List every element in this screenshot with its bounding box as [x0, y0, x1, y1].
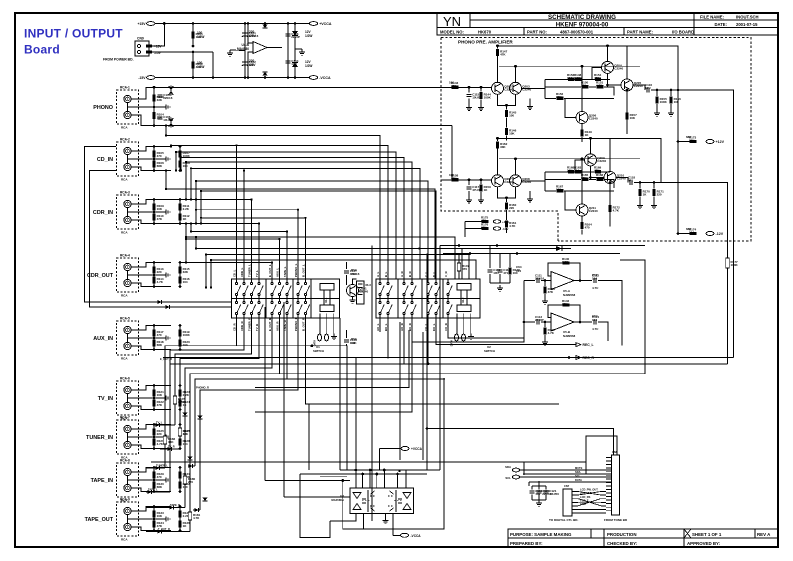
wire phono L into box	[171, 86, 441, 88]
wire u6 left loop2	[300, 474, 330, 538]
wire vcca wire2	[393, 534, 401, 536]
wire Q31 col	[353, 279, 357, 284]
wire fb low2	[564, 190, 614, 192]
wire cn8 low pin 6	[601, 509, 606, 511]
svg-text:HK670: HK670	[478, 29, 492, 34]
wire r5 up	[497, 46, 499, 49]
connector RCA-2 CD_IN jacks	[117, 142, 139, 176]
wire bus4a	[528, 482, 530, 486]
resistor R404	[163, 436, 167, 444]
wire S14 top stub	[427, 279, 429, 282]
svg-text:PHONO PRE. AMPLIFIER: PHONO PRE. AMPLIFIER	[458, 40, 513, 45]
svg-text:APPROVED BY:: APPROVED BY:	[687, 541, 721, 546]
svg-text:220: 220	[509, 206, 514, 210]
resistor TAPE_OUT clamp L	[178, 510, 181, 517]
ground CDR_OUT mid	[166, 272, 170, 277]
svg-text:4.7K: 4.7K	[596, 84, 603, 88]
svg-text:10K: 10K	[157, 393, 163, 397]
transistor Q25	[576, 204, 588, 216]
resistor R403	[188, 512, 192, 520]
wire U5A out	[574, 280, 592, 282]
switch S4a	[258, 282, 260, 284]
svg-text:AO_L: AO_L	[376, 323, 380, 331]
wire u6 h feed1	[340, 469, 440, 471]
wire tail dn2	[506, 135, 508, 140]
wire S9 mid stub	[305, 296, 307, 301]
svg-text:RCA-4: RCA-4	[120, 254, 130, 258]
wire c71 d	[538, 495, 540, 501]
terminal -15V	[147, 76, 155, 80]
resistor R56	[563, 261, 570, 264]
resistor R214	[608, 205, 611, 212]
connector CN8 FROM TONE BD	[612, 455, 620, 515]
wire C104 lead	[287, 40, 289, 78]
resistor TV_IN in L	[152, 389, 155, 396]
wire mxA c4 left	[180, 330, 259, 449]
diode series D306	[188, 464, 192, 468]
wire C32 lead up	[346, 330, 348, 338]
svg-text:33K: 33K	[157, 98, 163, 102]
wire S6 bot stub	[279, 315, 281, 330]
switch S6b	[278, 301, 280, 303]
svg-text:-12V: -12V	[716, 232, 724, 236]
svg-text:TV_R: TV_R	[255, 324, 259, 331]
wire cn8 pin 2	[606, 460, 612, 462]
wire bus drop 10	[200, 218, 202, 224]
wire CD_IN divider string	[153, 147, 155, 171]
sheet checkbox	[684, 529, 691, 538]
wire chan line 1	[171, 199, 252, 201]
diode series D301	[167, 447, 171, 451]
ground TAPE_IN mid	[166, 477, 170, 482]
svg-text:+12V: +12V	[502, 220, 509, 224]
wire bus4	[529, 481, 612, 483]
capacitor C72	[543, 491, 548, 493]
resistor R213	[595, 170, 601, 173]
wire q3 c	[590, 138, 592, 153]
resistor R402	[183, 476, 187, 484]
wire mxA c2 left	[170, 330, 244, 492]
svg-text:33K: 33K	[168, 440, 174, 444]
capacitor C53	[537, 319, 539, 324]
wire matrix feed 3	[251, 200, 253, 280]
wire rail above B2	[443, 253, 620, 255]
wire fb low	[545, 97, 556, 99]
wire scl wire	[520, 476, 612, 478]
wire bus drop 11	[190, 224, 192, 232]
wire fb mid2	[589, 178, 596, 180]
svg-text:47K: 47K	[157, 403, 163, 407]
wire r11	[653, 183, 655, 189]
wire v to U6 a	[264, 307, 266, 481]
wire AUX_IN divider string	[153, 326, 155, 350]
svg-text:RCA-5: RCA-5	[120, 317, 130, 321]
svg-text:REC_L: REC_L	[583, 343, 594, 347]
wire q3 e	[590, 166, 592, 178]
ground mid rails	[227, 50, 233, 56]
wire shunt1	[468, 180, 470, 185]
wire R45 leads	[458, 254, 460, 264]
wire bus line B5	[211, 260, 476, 279]
svg-text:10K: 10K	[157, 207, 163, 211]
wire S15 mid stub	[435, 296, 437, 301]
wire mxA c1 left	[165, 330, 237, 468]
ground fb 1	[527, 103, 533, 109]
wire R102 leads	[192, 52, 194, 78]
svg-text:680: 680	[686, 135, 691, 139]
svg-text:104: 104	[567, 76, 572, 80]
wire mid rail	[499, 158, 640, 160]
wire CDR_IN R jack lead	[131, 220, 171, 224]
wire r11d	[670, 104, 672, 110]
wire S10 bot stub	[379, 315, 381, 332]
svg-text:B_OUT_L: B_OUT_L	[302, 264, 306, 277]
svg-text:-VCCA: -VCCA	[319, 76, 331, 80]
wire D102 stub	[264, 77, 266, 78]
wire mxA c1 right	[237, 345, 348, 347]
wire chan line 2	[171, 223, 259, 225]
ground cluster B	[497, 285, 503, 291]
svg-text:AO_R: AO_R	[400, 323, 404, 331]
switch S14a	[427, 282, 429, 284]
connector RCA-8 TAPE_IN jacks	[117, 463, 139, 497]
wire zmid to gnd	[295, 48, 302, 50]
svg-text:10U/50: 10U/50	[549, 492, 559, 496]
wire bus drop 4	[180, 157, 182, 170]
wire r32 drop	[464, 222, 466, 238]
wire S4 bot stub	[258, 315, 260, 330]
switch S15a	[435, 282, 437, 284]
svg-text:REV A: REV A	[757, 532, 771, 537]
wire pair emitters	[498, 94, 516, 105]
wire vcca wire	[379, 448, 401, 450]
switch S1b	[235, 301, 237, 303]
wire shunt2b	[480, 99, 482, 104]
wire cn8 pin 1	[606, 457, 612, 459]
wire bus line B3	[196, 249, 462, 280]
resistor CD_IN clamp L	[178, 150, 181, 157]
svg-text:T_OUT_R: T_OUT_R	[158, 527, 170, 531]
wire D101 stub	[264, 23, 266, 26]
svg-text:SWITCH: SWITCH	[484, 349, 495, 353]
arrow terminal REC_OUT_L	[569, 343, 581, 347]
wire v down h	[378, 449, 380, 471]
terminal +VCCA	[401, 447, 409, 451]
svg-text:PHONO_L: PHONO_L	[294, 263, 298, 277]
switch S8b	[297, 301, 299, 303]
wire U5B out	[574, 321, 592, 323]
svg-text:100: 100	[449, 80, 454, 84]
wire cluster join	[490, 282, 510, 284]
wire q5 e	[581, 216, 583, 222]
svg-text:680: 680	[686, 227, 691, 231]
wire TV_IN clamp string	[179, 386, 181, 410]
wire S11 top stub	[387, 279, 389, 282]
svg-text:TAPE_R: TAPE_R	[170, 503, 180, 507]
wire v down j	[255, 330, 409, 388]
phono preamp dashed box	[441, 38, 751, 242]
resistor R57	[543, 328, 546, 335]
connector RCA-5 AUX_IN jacks	[117, 321, 139, 355]
switch S16b	[447, 301, 449, 303]
wire C31 lead up	[346, 262, 348, 269]
IC U6 MA4580A outline	[350, 488, 414, 514]
switch S10b	[379, 301, 381, 303]
capacitor C52	[594, 278, 596, 283]
svg-text:-VCCA: -VCCA	[411, 534, 422, 538]
wire long h1	[170, 363, 728, 365]
wire v down d	[339, 318, 341, 470]
svg-text:TUNER_L: TUNER_L	[248, 264, 252, 277]
resistor R30	[690, 140, 697, 143]
wire S4 mid stub	[258, 296, 260, 301]
wire fb low	[545, 190, 556, 192]
capacitor C11 shunt	[466, 94, 471, 96]
wire U5B fb	[548, 305, 580, 322]
svg-text:RCA-1: RCA-1	[120, 86, 130, 90]
connector RCA-4 CDR_OUT jacks	[117, 258, 139, 292]
svg-text:2.2K: 2.2K	[178, 400, 185, 404]
resistor CD_IN in R	[152, 160, 155, 167]
svg-text:470: 470	[594, 76, 599, 80]
terminal SDA	[512, 468, 519, 472]
wire phono R to ch2	[451, 126, 453, 180]
svg-text:4.7K: 4.7K	[193, 516, 200, 520]
ground R57	[542, 339, 548, 345]
resistor R111	[669, 97, 672, 104]
wire mid wire	[192, 48, 194, 50]
wire cn8 pin 13	[606, 499, 612, 501]
wire R46 d	[509, 275, 511, 283]
wire TUNER_IN R jack lead	[131, 445, 171, 449]
wire q5 b	[565, 98, 576, 117]
resistor AUX_IN clamp L	[178, 329, 181, 336]
wire q5 b	[565, 191, 576, 210]
resistor R27	[580, 222, 583, 229]
wire C41 u	[489, 246, 491, 269]
wire S7 bot stub	[286, 315, 288, 330]
svg-text:100K: 100K	[484, 95, 492, 99]
wire C32 lead dn	[346, 344, 348, 346]
ground PHONO mid	[166, 104, 170, 109]
wire Q31 base	[345, 290, 347, 292]
resistor TAPE_IN in R	[152, 481, 155, 488]
wire -15V rail	[155, 77, 309, 79]
svg-text:+12V: +12V	[716, 140, 725, 144]
wire U5A fb	[548, 263, 580, 281]
wire r32 wire	[465, 221, 482, 223]
wire input lead2	[459, 86, 492, 88]
wire mxA c3 left	[175, 330, 252, 425]
wire bus line B4	[206, 255, 469, 280]
svg-text:B_R: B_R	[408, 271, 412, 277]
wire S7 top stub	[286, 279, 288, 282]
wire matrix feed 1	[236, 145, 238, 279]
wire zener leads	[294, 24, 296, 32]
wire cn8 pin 14	[606, 503, 612, 505]
wire U5A out2	[598, 281, 622, 346]
wire lch tv	[154, 424, 175, 426]
resistor AUX_IN clamp R	[178, 339, 181, 346]
svg-text:B_L: B_L	[384, 271, 388, 277]
wire fb line1	[545, 171, 610, 173]
svg-text:SCL: SCL	[505, 476, 511, 480]
capacitor C31	[344, 271, 349, 273]
wire bus3a	[523, 462, 525, 474]
svg-text:-12V: -12V	[502, 227, 508, 231]
transistor Q15	[576, 112, 588, 124]
wire S6 top stub	[279, 279, 281, 282]
wire arrow diode line	[419, 248, 571, 250]
wire out wire	[616, 178, 628, 183]
wire shunt1b	[468, 191, 470, 197]
wire S12 top stub	[403, 279, 405, 282]
wire cn8 low pin 7	[601, 512, 606, 514]
terminal +12V phono	[706, 140, 714, 144]
svg-text:1/2W: 1/2W	[197, 65, 204, 69]
svg-text:LCD_E: LCD_E	[580, 498, 589, 502]
svg-text:AUX_R: AUX_R	[276, 322, 280, 331]
wire S9 bot stub	[305, 315, 307, 330]
wire long h3	[230, 260, 645, 374]
wire mxA c8 down	[200, 330, 298, 510]
wire R55 leads	[544, 281, 546, 287]
switch S7b	[286, 301, 288, 303]
connector CN7 TO DIGITAL CTL BD	[563, 489, 572, 516]
resistor R114	[625, 113, 628, 120]
switch S5b	[271, 301, 273, 303]
wire S8 mid stub	[297, 296, 299, 301]
wire mxB drop 1	[387, 332, 389, 358]
wire u6 top in 5	[383, 470, 385, 488]
resistor R33	[482, 227, 489, 230]
wire phono supply rail	[677, 90, 679, 234]
wire sda wire	[520, 469, 612, 471]
wire S1 mid stub	[236, 296, 238, 301]
wire matrix feed 8	[297, 210, 299, 279]
capacitor phono shunt	[157, 95, 162, 97]
resistor R18	[582, 85, 589, 88]
capacitor C103	[285, 34, 290, 36]
resistor TAPE_OUT in L	[152, 510, 155, 517]
svg-text:1/2W: 1/2W	[305, 64, 312, 68]
wire CDR_IN divider string	[153, 200, 155, 224]
transistor Q24	[604, 172, 616, 184]
diode series D305	[157, 530, 161, 534]
wire S8 top stub	[297, 279, 299, 282]
switch S8a	[297, 282, 299, 284]
wire q3 b	[545, 67, 601, 79]
wire Q1 collector up	[497, 148, 499, 175]
resistor CDR_IN clamp R	[178, 213, 181, 220]
resistor R212	[568, 170, 574, 173]
svg-text:RCA: RCA	[121, 126, 128, 130]
wire S13 bot stub	[411, 315, 413, 332]
relay coil RL2	[457, 284, 471, 312]
svg-text:C2240: C2240	[614, 66, 623, 70]
switch S5a	[271, 282, 273, 284]
wire ch top rail	[499, 138, 661, 182]
title block outline	[437, 13, 778, 35]
svg-text:AUX_L: AUX_L	[276, 268, 280, 277]
svg-text:RCA: RCA	[121, 231, 128, 235]
resistor R11 input	[452, 86, 459, 89]
wire cn8 pin 16	[606, 510, 612, 512]
svg-text:TUNER_IN: TUNER_IN	[86, 435, 113, 441]
wire fb mid2	[589, 86, 596, 88]
wire q4 e dn	[609, 184, 611, 196]
wire v down l	[426, 254, 428, 471]
wire S11 bot stub	[387, 315, 389, 332]
wire S13 mid stub	[411, 296, 413, 301]
svg-text:100K: 100K	[660, 100, 668, 104]
switch S13b	[411, 301, 413, 303]
wire cn8 low pin 4	[601, 501, 606, 503]
svg-text:47K: 47K	[548, 290, 554, 294]
switch S3b	[250, 301, 252, 303]
wire gnd lead mxA	[333, 314, 335, 334]
wire fb mid	[545, 86, 581, 88]
resistor TAPE_IN in L	[152, 471, 155, 478]
ground digital caps	[536, 500, 542, 506]
wire long h5	[309, 403, 559, 405]
resistor R55	[543, 287, 546, 294]
wire c72 d	[545, 495, 547, 501]
wire S2 mid stub	[243, 296, 245, 301]
wire S1 bot stub	[236, 315, 238, 330]
capacitor C102	[242, 61, 248, 63]
svg-text:TO DIGITAL CTL BD.: TO DIGITAL CTL BD.	[549, 518, 578, 522]
wire bus line A3	[176, 152, 396, 279]
switch S9b	[304, 301, 306, 303]
wire S4 top stub	[258, 279, 260, 282]
wire cn8 pin 11	[606, 492, 612, 494]
transistor Q14	[621, 79, 633, 91]
wire S16 bot stub	[447, 315, 449, 332]
FET Q61	[362, 490, 375, 512]
terminal SCL	[512, 475, 519, 479]
wire matrix feed h 9	[201, 217, 306, 219]
resistor R23 tail	[505, 202, 508, 209]
wire bus drop 9	[195, 200, 197, 210]
svg-text:CD_R: CD_R	[233, 323, 237, 331]
wire Q2 collector up	[515, 66, 517, 82]
svg-text:RCA-7: RCA-7	[120, 416, 130, 420]
svg-text:220: 220	[157, 432, 162, 436]
svg-text:470: 470	[451, 84, 456, 88]
svg-text:RCA-8: RCA-8	[120, 459, 130, 463]
resistor R58	[563, 303, 570, 306]
wire bus drop 12	[185, 224, 187, 240]
wire cn8 pin 5	[606, 471, 612, 473]
svg-text:33K: 33K	[183, 270, 189, 274]
wire C51 in	[524, 280, 535, 282]
relay coil RL1	[320, 284, 334, 312]
switch S12a	[403, 282, 405, 284]
wire C102 leads	[244, 51, 246, 78]
svg-text:TV_IN: TV_IN	[98, 396, 113, 402]
wire S13 top stub	[411, 279, 413, 282]
capacitor C32	[344, 340, 349, 342]
wire fb line2	[522, 87, 546, 89]
wire q4 c up	[609, 138, 611, 171]
resistor R16	[575, 78, 582, 81]
svg-text:471: 471	[503, 271, 508, 275]
switch S11b	[387, 301, 389, 303]
wire cn8 pin 9	[606, 485, 612, 487]
wire r31 wire	[678, 233, 690, 235]
wire cn7 pin 6	[572, 509, 578, 511]
